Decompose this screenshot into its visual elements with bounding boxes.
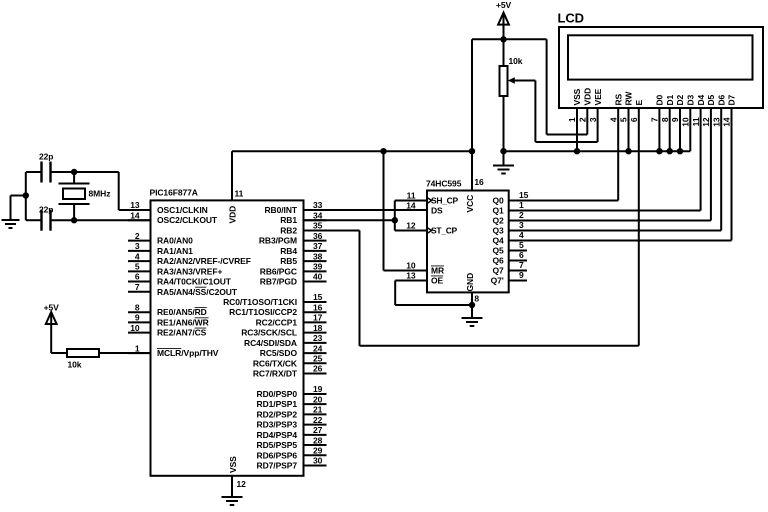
svg-text:14: 14 xyxy=(722,117,732,127)
svg-text:6: 6 xyxy=(135,272,140,282)
svg-text:RC3/SCK/SCL: RC3/SCK/SCL xyxy=(241,328,297,338)
svg-text:12: 12 xyxy=(701,117,711,127)
svg-text:14: 14 xyxy=(130,210,140,220)
svg-text:18: 18 xyxy=(313,323,323,333)
svg-text:VEE: VEE xyxy=(593,88,603,105)
svg-text:ST_CP: ST_CP xyxy=(431,226,458,236)
svg-text:RD6/PSP6: RD6/PSP6 xyxy=(257,450,298,460)
svg-text:3: 3 xyxy=(135,241,140,251)
svg-text:VSS: VSS xyxy=(572,88,582,105)
svg-text:MCLR/Vpp/THV: MCLR/Vpp/THV xyxy=(157,348,219,358)
svg-text:1: 1 xyxy=(567,117,577,122)
svg-text:RB6/PGC: RB6/PGC xyxy=(260,266,297,276)
svg-text:RD7/PSP7: RD7/PSP7 xyxy=(257,461,298,471)
svg-text:29: 29 xyxy=(313,445,323,455)
svg-text:RC4/SDI/SDA: RC4/SDI/SDA xyxy=(244,338,297,348)
svg-text:OSC2/CLKOUT: OSC2/CLKOUT xyxy=(157,215,218,225)
svg-text:4: 4 xyxy=(135,251,140,261)
svg-text:RE1/AN6/WR: RE1/AN6/WR xyxy=(157,317,209,327)
svg-text:VDD: VDD xyxy=(583,88,593,106)
svg-text:9: 9 xyxy=(519,270,524,280)
svg-text:MR: MR xyxy=(431,266,444,276)
svg-text:20: 20 xyxy=(313,394,323,404)
svg-text:RD0/PSP0: RD0/PSP0 xyxy=(257,389,298,399)
svg-text:Q3: Q3 xyxy=(493,226,505,236)
svg-text:Q6: Q6 xyxy=(493,256,505,266)
svg-text:39: 39 xyxy=(313,262,323,272)
svg-text:RE2/AN7/CS: RE2/AN7/CS xyxy=(157,328,207,338)
svg-text:16: 16 xyxy=(313,302,323,312)
svg-text:7: 7 xyxy=(650,117,660,122)
svg-text:RD3/PSP3: RD3/PSP3 xyxy=(257,420,298,430)
svg-text:D1: D1 xyxy=(665,94,675,105)
svg-text:13: 13 xyxy=(711,117,721,127)
svg-text:RB3/PGM: RB3/PGM xyxy=(259,236,297,246)
svg-text:33: 33 xyxy=(313,200,323,210)
svg-text:10: 10 xyxy=(130,323,140,333)
svg-text:27: 27 xyxy=(313,425,323,435)
svg-text:OSC1/CLKIN: OSC1/CLKIN xyxy=(157,205,208,215)
svg-text:RA3/AN3/VREF+: RA3/AN3/VREF+ xyxy=(157,266,222,276)
svg-text:RB1: RB1 xyxy=(280,215,297,225)
svg-text:SH_CP: SH_CP xyxy=(431,196,458,206)
svg-text:7: 7 xyxy=(519,260,524,270)
svg-text:16: 16 xyxy=(474,177,484,187)
svg-text:10k: 10k xyxy=(509,56,523,66)
svg-text:RD1/PSP1: RD1/PSP1 xyxy=(257,399,298,409)
svg-text:+5V: +5V xyxy=(44,302,60,312)
svg-text:Q1: Q1 xyxy=(493,206,505,216)
svg-text:34: 34 xyxy=(313,210,323,220)
svg-text:15: 15 xyxy=(313,292,323,302)
svg-text:22p: 22p xyxy=(39,152,53,162)
svg-text:17: 17 xyxy=(313,313,323,323)
svg-text:37: 37 xyxy=(313,241,323,251)
svg-text:RS: RS xyxy=(613,93,623,105)
svg-text:RD4/PSP4: RD4/PSP4 xyxy=(257,430,298,440)
svg-text:4: 4 xyxy=(608,117,618,122)
svg-text:24: 24 xyxy=(313,343,323,353)
svg-text:D2: D2 xyxy=(675,94,685,105)
svg-text:RB5: RB5 xyxy=(280,256,297,266)
svg-text:Q0: Q0 xyxy=(493,196,505,206)
svg-text:RC7/RX/DT: RC7/RX/DT xyxy=(253,369,298,379)
svg-text:RD5/PSP5: RD5/PSP5 xyxy=(257,440,298,450)
svg-text:6: 6 xyxy=(629,117,639,122)
svg-text:40: 40 xyxy=(313,272,323,282)
svg-text:11: 11 xyxy=(691,117,701,126)
svg-text:RC5/SDO: RC5/SDO xyxy=(260,348,298,358)
svg-text:LCD: LCD xyxy=(558,11,584,26)
svg-text:35: 35 xyxy=(313,221,323,231)
svg-text:12: 12 xyxy=(406,220,416,230)
svg-text:11: 11 xyxy=(235,189,244,199)
svg-text:10: 10 xyxy=(406,260,416,270)
svg-text:10k: 10k xyxy=(68,360,82,370)
svg-text:Q7: Q7 xyxy=(493,266,505,276)
svg-text:+5V: +5V xyxy=(496,0,512,10)
svg-text:RB4: RB4 xyxy=(280,246,297,256)
svg-text:DS: DS xyxy=(431,206,443,216)
svg-text:13: 13 xyxy=(130,200,140,210)
svg-text:10: 10 xyxy=(681,117,691,127)
svg-text:VDD: VDD xyxy=(228,206,238,224)
svg-text:RA4/T0CKI/C1OUT: RA4/T0CKI/C1OUT xyxy=(157,277,232,287)
svg-text:9: 9 xyxy=(135,313,140,323)
svg-text:GND: GND xyxy=(465,273,475,292)
svg-text:VSS: VSS xyxy=(228,456,238,473)
svg-text:8MHz: 8MHz xyxy=(89,189,111,199)
svg-text:PIC16F877A: PIC16F877A xyxy=(150,188,198,198)
svg-text:3: 3 xyxy=(588,117,598,122)
svg-text:OE: OE xyxy=(431,276,444,286)
svg-text:9: 9 xyxy=(670,117,680,122)
svg-text:D3: D3 xyxy=(686,94,696,105)
svg-text:RA0/AN0: RA0/AN0 xyxy=(157,236,193,246)
svg-text:28: 28 xyxy=(313,435,323,445)
svg-text:E: E xyxy=(634,100,644,106)
svg-text:5: 5 xyxy=(135,262,140,272)
svg-text:VCC: VCC xyxy=(465,195,475,213)
svg-text:RB7/PGD: RB7/PGD xyxy=(260,277,297,287)
svg-text:7: 7 xyxy=(135,282,140,292)
svg-text:RA2/AN2/VREF-/CVREF: RA2/AN2/VREF-/CVREF xyxy=(157,256,251,266)
svg-text:30: 30 xyxy=(313,456,323,466)
svg-text:RE0/AN5/RD: RE0/AN5/RD xyxy=(157,307,207,317)
svg-text:22: 22 xyxy=(313,415,323,425)
svg-text:5: 5 xyxy=(619,117,629,122)
svg-text:8: 8 xyxy=(660,117,670,122)
svg-text:8: 8 xyxy=(135,302,140,312)
svg-text:13: 13 xyxy=(406,270,416,280)
svg-text:RA1/AN1: RA1/AN1 xyxy=(157,246,193,256)
svg-text:Q7': Q7' xyxy=(491,276,504,286)
svg-text:11: 11 xyxy=(407,190,416,200)
svg-text:RC0/T1OSO/T1CKI: RC0/T1OSO/T1CKI xyxy=(223,297,297,307)
svg-text:2: 2 xyxy=(135,231,140,241)
svg-text:D0: D0 xyxy=(655,94,665,105)
svg-text:38: 38 xyxy=(313,251,323,261)
svg-text:2: 2 xyxy=(578,117,588,122)
svg-text:6: 6 xyxy=(519,250,524,260)
svg-text:RC2/CCP1: RC2/CCP1 xyxy=(256,317,298,327)
svg-text:Q4: Q4 xyxy=(493,236,505,246)
svg-text:Q2: Q2 xyxy=(493,216,505,226)
svg-text:8: 8 xyxy=(474,293,479,303)
svg-text:23: 23 xyxy=(313,333,323,343)
svg-text:22p: 22p xyxy=(39,205,53,215)
svg-text:D7: D7 xyxy=(727,94,737,105)
svg-text:D4: D4 xyxy=(696,94,706,105)
svg-text:25: 25 xyxy=(313,354,323,364)
svg-text:RD2/PSP2: RD2/PSP2 xyxy=(257,409,298,419)
svg-text:RW: RW xyxy=(624,91,634,106)
svg-text:D5: D5 xyxy=(706,94,716,105)
svg-text:14: 14 xyxy=(406,200,416,210)
svg-text:RB0/INT: RB0/INT xyxy=(265,205,298,215)
svg-text:1: 1 xyxy=(135,343,140,353)
svg-text:RC6/TX/CK: RC6/TX/CK xyxy=(253,358,298,368)
svg-text:D6: D6 xyxy=(716,94,726,105)
svg-text:74HC595: 74HC595 xyxy=(426,179,462,189)
svg-text:Q5: Q5 xyxy=(493,246,505,256)
svg-text:26: 26 xyxy=(313,364,323,374)
svg-text:36: 36 xyxy=(313,231,323,241)
svg-text:RA5/AN4/SS/C2OUT: RA5/AN4/SS/C2OUT xyxy=(157,287,238,297)
svg-text:RB2: RB2 xyxy=(280,225,297,235)
svg-text:RC1/T1OSI/CCP2: RC1/T1OSI/CCP2 xyxy=(229,307,297,317)
svg-text:19: 19 xyxy=(313,384,323,394)
svg-text:21: 21 xyxy=(313,405,323,415)
svg-text:15: 15 xyxy=(519,190,529,200)
svg-text:12: 12 xyxy=(237,479,247,489)
